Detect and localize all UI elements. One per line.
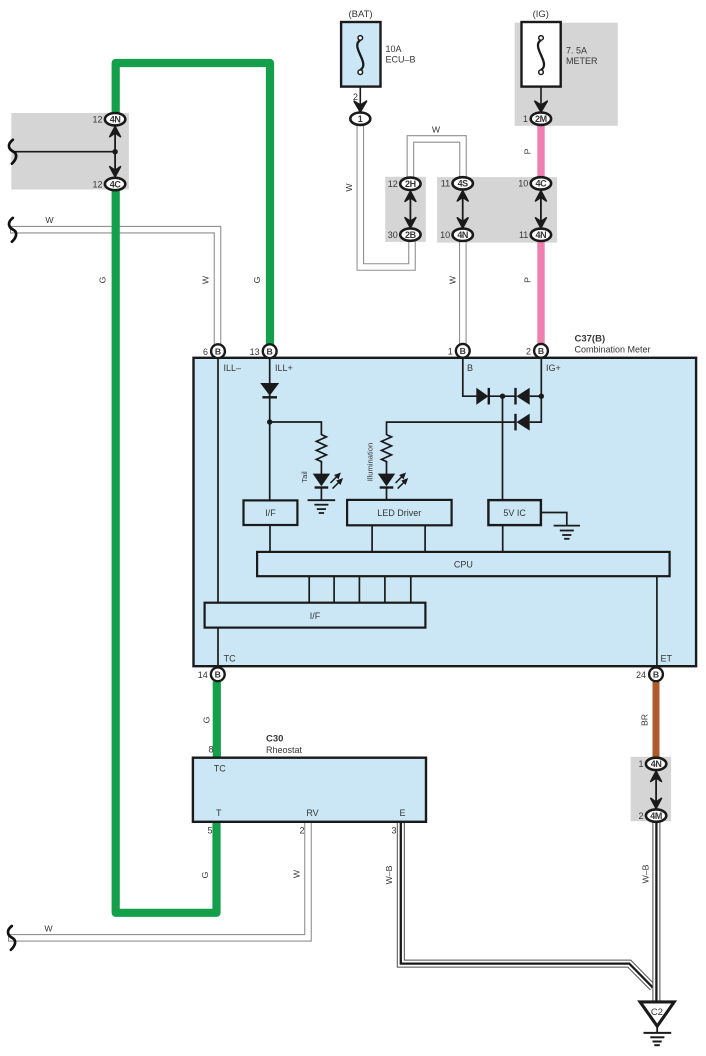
svg-text:11: 11 bbox=[441, 179, 450, 189]
svg-text:W: W bbox=[447, 275, 457, 284]
connector gray box 4S/4N and 4C/4N bbox=[437, 177, 557, 243]
svg-text:B: B bbox=[538, 346, 544, 356]
svg-text:W: W bbox=[201, 275, 211, 284]
svg-text:2M: 2M bbox=[535, 114, 547, 124]
arrow down into 4C bbox=[110, 167, 121, 177]
svg-text:RV: RV bbox=[306, 808, 318, 818]
wire D1 to node bbox=[489, 395, 516, 397]
svg-text:W: W bbox=[344, 183, 354, 192]
svg-text:W: W bbox=[432, 125, 441, 135]
svg-text:C2: C2 bbox=[651, 1007, 663, 1018]
wire to harness break (black) bbox=[13, 151, 115, 153]
svg-text:ET: ET bbox=[661, 654, 673, 664]
svg-text:Illumination: Illumination bbox=[366, 443, 375, 481]
harness break squiggle ILL- wire bbox=[9, 218, 16, 242]
meter pin 2 B bbox=[526, 344, 548, 358]
svg-text:4N: 4N bbox=[457, 230, 468, 240]
fuse METER (IG) bbox=[522, 9, 599, 87]
svg-text:W–B: W–B bbox=[384, 865, 394, 884]
rheostat C30 box bbox=[193, 758, 426, 822]
box CPU bbox=[257, 552, 669, 576]
wire D2 to IG+ line bbox=[530, 395, 542, 397]
wire I/F to CPU bbox=[269, 525, 271, 552]
wire LED to ground bbox=[320, 488, 322, 501]
svg-text:Rheostat: Rheostat bbox=[266, 745, 303, 755]
connector shield gray box left 4N/4C bbox=[11, 113, 129, 190]
svg-text:ECU–B: ECU–B bbox=[386, 55, 416, 65]
svg-text:TC: TC bbox=[224, 654, 236, 664]
wire 5V IC to CPU bbox=[502, 525, 504, 552]
svg-text:G: G bbox=[252, 276, 262, 283]
svg-text:3: 3 bbox=[391, 826, 396, 836]
svg-text:2: 2 bbox=[526, 346, 531, 356]
svg-text:4N: 4N bbox=[651, 759, 662, 769]
svg-text:1: 1 bbox=[358, 114, 363, 124]
connector oval 2H pin 12 bbox=[388, 178, 421, 190]
resistor illumination bbox=[382, 435, 392, 464]
svg-text:B: B bbox=[215, 670, 221, 680]
meter pin 1 B bbox=[448, 344, 470, 358]
wire 5V IC to internal ground bbox=[541, 513, 567, 526]
box LED Driver bbox=[347, 500, 452, 525]
wire ET internal bbox=[656, 576, 658, 666]
svg-text:24: 24 bbox=[636, 670, 646, 680]
fuse holder gray box IG bbox=[515, 23, 618, 126]
node dot ILL+ branch bbox=[267, 419, 272, 424]
wire IG+ internal bbox=[530, 358, 542, 422]
connector oval 4C pin 10 bbox=[518, 177, 551, 189]
svg-text:I/F: I/F bbox=[265, 508, 276, 518]
svg-text:METER: METER bbox=[566, 56, 598, 66]
meter pin 14 B bbox=[198, 667, 225, 681]
node splice dot left connector bbox=[112, 149, 117, 154]
svg-text:C30: C30 bbox=[266, 734, 283, 745]
wire ILL- / TC internal bbox=[217, 358, 219, 666]
svg-text:2: 2 bbox=[638, 811, 643, 821]
wire node to 5V IC bbox=[502, 396, 504, 500]
svg-text:(IG): (IG) bbox=[533, 9, 549, 20]
svg-text:Tail: Tail bbox=[300, 471, 309, 483]
svg-text:11: 11 bbox=[519, 230, 528, 240]
LED illumination bbox=[378, 470, 411, 491]
svg-text:W–B: W–B bbox=[641, 864, 651, 883]
svg-text:8: 8 bbox=[208, 745, 213, 755]
meter pin 13 B bbox=[250, 344, 277, 358]
harness break squiggle bottom W wire bbox=[8, 926, 15, 950]
svg-text:C37(B): C37(B) bbox=[575, 334, 606, 345]
svg-text:4S: 4S bbox=[458, 179, 469, 189]
meter pin 24 B bbox=[636, 667, 663, 681]
svg-text:14: 14 bbox=[198, 670, 208, 680]
connector oval 4N pin 11 bbox=[519, 229, 551, 241]
connector oval 4N pin 12 (left) bbox=[92, 113, 125, 125]
svg-text:30: 30 bbox=[388, 230, 398, 240]
svg-text:Combination Meter: Combination Meter bbox=[575, 345, 651, 355]
svg-text:W: W bbox=[45, 215, 54, 225]
wire B internal bbox=[463, 358, 477, 396]
wire D3 to illumination resistor bbox=[387, 422, 516, 435]
svg-text:G: G bbox=[98, 276, 108, 283]
svg-text:ILL+: ILL+ bbox=[275, 363, 293, 373]
wire W to meter pin 6 ILL- (white) bbox=[10, 230, 218, 345]
bus wires CPU to I/F bbox=[309, 576, 411, 603]
connector oval 4M pin 2 (right) bbox=[638, 809, 666, 821]
wire P from 4N to meter pin 2 (pink) bbox=[537, 241, 544, 344]
svg-text:G: G bbox=[200, 871, 210, 878]
connector oval 2B pin 30 bbox=[388, 228, 421, 240]
svg-text:W: W bbox=[44, 924, 53, 934]
svg-text:2: 2 bbox=[299, 826, 304, 836]
junction arrows 2H to 2B bbox=[405, 191, 416, 228]
wire W bridge from 2H to 4S (white) bbox=[410, 139, 463, 178]
meter pin 6 B bbox=[203, 344, 225, 358]
diode on ILL+ line bbox=[260, 383, 279, 396]
pin 2 of fuse ECU-B with arrow to splice 1 bbox=[353, 87, 367, 112]
svg-text:T: T bbox=[216, 808, 222, 818]
svg-text:2H: 2H bbox=[405, 179, 416, 189]
box I/F lower bbox=[205, 603, 426, 628]
junction arrows 4C to 4N bbox=[536, 191, 547, 228]
arrow up into 4N bbox=[110, 127, 121, 137]
svg-text:E: E bbox=[399, 808, 405, 818]
svg-text:LED Driver: LED Driver bbox=[377, 508, 421, 518]
box 5V IC bbox=[488, 500, 541, 525]
svg-text:1: 1 bbox=[523, 114, 528, 124]
box I/F upper bbox=[244, 500, 298, 525]
svg-text:10A: 10A bbox=[386, 44, 402, 54]
diode D3 to LED driver supply bbox=[517, 414, 530, 431]
svg-text:B: B bbox=[267, 347, 273, 357]
wire W from 4N to meter pin 1 (white) bbox=[459, 241, 467, 345]
svg-text:ILL–: ILL– bbox=[224, 363, 242, 373]
svg-text:4C: 4C bbox=[110, 179, 122, 189]
svg-text:4N: 4N bbox=[110, 115, 121, 125]
svg-text:6: 6 bbox=[203, 347, 208, 357]
svg-text:5: 5 bbox=[207, 826, 212, 836]
svg-text:7. 5A: 7. 5A bbox=[566, 46, 587, 56]
connector oval 4N pin 10 bbox=[440, 229, 473, 241]
svg-text:W: W bbox=[292, 869, 302, 878]
svg-text:B: B bbox=[215, 347, 221, 357]
wire P from 2M to 4C (pink) bbox=[537, 125, 544, 178]
svg-text:1: 1 bbox=[638, 759, 643, 769]
svg-text:4C: 4C bbox=[536, 179, 548, 189]
svg-text:1: 1 bbox=[448, 346, 453, 356]
wire resistor to tail LED bbox=[320, 462, 322, 474]
wire BR from meter pin 24 ET to 4N (brown) bbox=[653, 682, 660, 758]
wire G from meter pin 14 TC to rheostat pin 8 (green) bbox=[213, 681, 221, 758]
svg-text:I/F: I/F bbox=[310, 611, 321, 621]
svg-text:B: B bbox=[467, 363, 473, 373]
svg-text:TC: TC bbox=[214, 764, 226, 774]
wire W from rheostat RV (white) bbox=[8, 821, 308, 938]
svg-text:IG+: IG+ bbox=[546, 363, 561, 373]
connector oval 2M bbox=[531, 113, 551, 125]
svg-text:4M: 4M bbox=[650, 811, 662, 821]
ground internal 5V IC bbox=[554, 526, 580, 539]
LED tail bbox=[313, 470, 346, 491]
ground C2 bbox=[640, 1002, 674, 1045]
harness break squiggle top left bbox=[9, 140, 16, 164]
svg-text:13: 13 bbox=[250, 347, 260, 357]
resistor tail bbox=[316, 435, 326, 464]
connector oval 4N pin 1 (right) bbox=[638, 758, 666, 770]
wire G from 4C down around to rheostat T (green) bbox=[116, 189, 217, 913]
pin 1 of fuse METER with arrow to connector 2M bbox=[523, 87, 547, 124]
diode D1 from B bbox=[476, 388, 488, 405]
svg-text:10: 10 bbox=[440, 230, 450, 240]
svg-text:12: 12 bbox=[92, 115, 102, 125]
svg-text:10: 10 bbox=[518, 179, 528, 189]
wire W-B from 4M to ground C2 bbox=[652, 821, 660, 1003]
svg-text:B: B bbox=[460, 346, 466, 356]
svg-text:(BAT): (BAT) bbox=[348, 9, 372, 20]
wire W from fuse ECU-B splice 1 to connector 2B (white) bbox=[360, 124, 412, 267]
connector gray box right 4N/4M bbox=[631, 757, 672, 821]
wires LED Driver to CPU bbox=[371, 525, 373, 552]
svg-text:BR: BR bbox=[640, 714, 650, 726]
svg-text:P: P bbox=[523, 277, 533, 283]
splice oval 1 bbox=[350, 113, 370, 125]
node dot on IG+ line bbox=[539, 394, 544, 399]
svg-text:4N: 4N bbox=[536, 230, 547, 240]
svg-text:2B: 2B bbox=[405, 230, 417, 240]
svg-text:B: B bbox=[653, 670, 659, 680]
connector oval 4C pin 12 (left) bbox=[92, 178, 125, 190]
svg-text:CPU: CPU bbox=[454, 560, 473, 570]
wire ILL+ internal bbox=[269, 358, 271, 501]
wire G main loop top to 4N and to meter pin 13 ILL+ (green) bbox=[116, 63, 270, 345]
svg-text:5V IC: 5V IC bbox=[503, 508, 526, 518]
node dot supply 1 bbox=[500, 394, 505, 399]
junction arrows 4S to 4N bbox=[457, 191, 468, 228]
svg-text:G: G bbox=[202, 716, 212, 723]
svg-text:12: 12 bbox=[92, 179, 102, 189]
wire resistor to illumination LED bbox=[386, 462, 388, 474]
fuse ECU-B (BAT) bbox=[341, 9, 415, 87]
junction shaft left connector bbox=[114, 127, 116, 177]
connector gray box 2H/2B bbox=[385, 177, 426, 242]
wire LED to LED driver bbox=[386, 488, 388, 501]
svg-text:12: 12 bbox=[388, 179, 398, 189]
wire branch to tail lamp resistor bbox=[270, 422, 322, 435]
combination meter C37(B) box bbox=[194, 358, 697, 666]
ground internal tail bbox=[308, 500, 336, 513]
connector oval 4S pin 11 bbox=[441, 177, 473, 189]
svg-text:P: P bbox=[523, 148, 533, 154]
diode D2 from IG+ bbox=[517, 388, 530, 405]
junction arrows right 4N to 4M bbox=[651, 771, 662, 808]
wire W-B from rheostat E to ground C2 bbox=[401, 821, 653, 988]
